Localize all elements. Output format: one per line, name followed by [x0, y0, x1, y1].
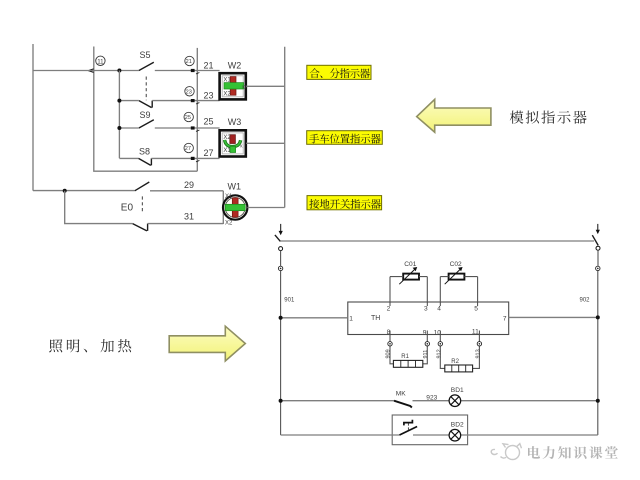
svg-text:21: 21: [204, 60, 214, 70]
wire row 23: [119, 100, 219, 102]
wire 909: [385, 335, 393, 364]
wire W3 to lamp bus: [246, 142, 285, 144]
svg-text:31: 31: [184, 212, 194, 222]
wire left bus: [32, 44, 34, 191]
resistor R1: [393, 354, 422, 367]
terminal 21: [185, 56, 214, 74]
svg-text:7: 7: [503, 315, 507, 322]
pin 9: [423, 329, 428, 336]
lamp W2: [220, 61, 248, 100]
disconnect switch right: [592, 224, 600, 250]
connector pin 11: [88, 56, 105, 72]
svg-text:23: 23: [186, 90, 192, 96]
terminal 27: [184, 143, 214, 162]
svg-text:5: 5: [474, 306, 478, 313]
wire 901 left bus: [281, 251, 295, 435]
svg-text:9: 9: [423, 329, 427, 336]
svg-text:909: 909: [385, 349, 391, 358]
switch MK: [394, 390, 412, 407]
svg-text:C01: C01: [404, 261, 416, 268]
svg-text:923: 923: [426, 394, 437, 401]
svg-text:W3: W3: [228, 117, 242, 127]
arrow lighting heating: [169, 326, 245, 361]
svg-text:R2: R2: [451, 359, 459, 365]
pin 8: [387, 329, 391, 336]
junction node lower left: [279, 399, 283, 403]
wire row 21: [33, 70, 220, 72]
lamp W3: [220, 117, 246, 156]
lamp BD2: [449, 422, 464, 441]
svg-text:S8: S8: [139, 147, 150, 157]
svg-text:27: 27: [204, 148, 214, 158]
enclosure BD2 box: [392, 415, 467, 445]
wire second bus with bottom rail: [94, 47, 198, 172]
wire bottom rail: [281, 434, 598, 436]
pin 4: [437, 302, 441, 313]
svg-text:912: 912: [436, 349, 442, 358]
wire row 29: [33, 180, 223, 191]
switch door contact in BD2: [400, 420, 418, 435]
capacitor C01: [390, 261, 427, 302]
junction node row 23: [117, 99, 121, 103]
svg-text:X1: X1: [223, 148, 231, 154]
wire 911: [423, 335, 430, 364]
text lighting heating: [49, 339, 131, 352]
wire middle rail right: [509, 316, 598, 318]
svg-text:25: 25: [185, 115, 191, 121]
svg-text:W1: W1: [228, 182, 242, 192]
svg-text:X1: X1: [225, 194, 233, 200]
svg-text:911: 911: [423, 350, 429, 359]
svg-text:BD2: BD2: [451, 422, 464, 429]
svg-text:R1: R1: [401, 354, 409, 360]
pin 11: [472, 329, 480, 336]
pin 2: [387, 302, 391, 313]
terminal bus: [196, 48, 198, 171]
switch S8: [139, 147, 152, 166]
svg-text:21: 21: [186, 59, 192, 65]
svg-text:TH: TH: [371, 315, 380, 322]
contact symbol right: [596, 266, 600, 270]
text simulation indicator: [510, 111, 587, 124]
wire lamp bus: [284, 47, 286, 208]
svg-text:902: 902: [580, 297, 591, 303]
svg-text:BD1: BD1: [451, 387, 464, 394]
junction node lower right: [596, 399, 600, 403]
svg-text:E0: E0: [121, 202, 134, 213]
wire lower rail: [281, 400, 598, 402]
svg-text:X2: X2: [225, 220, 233, 226]
svg-text:X: X: [240, 144, 243, 149]
resistor R2: [445, 359, 473, 372]
svg-text:2: 2: [387, 306, 391, 313]
lamp W1: [223, 182, 247, 227]
wire row 25: [119, 127, 219, 129]
contact symbol left: [278, 266, 282, 270]
switch S9: [139, 110, 154, 128]
pin 5: [474, 302, 478, 313]
svg-text:W2: W2: [228, 61, 242, 71]
wire row 27: [119, 157, 219, 159]
junction node row 25: [117, 126, 121, 130]
svg-text:X1: X1: [223, 78, 231, 84]
label close/open indicator: [307, 65, 371, 79]
heater TH: [348, 302, 509, 335]
svg-text:11: 11: [97, 58, 104, 65]
junction node E0: [63, 189, 67, 193]
svg-text:1: 1: [349, 315, 353, 322]
svg-text:23: 23: [204, 90, 214, 100]
disconnect switch left: [275, 224, 283, 251]
junction node middle right: [596, 315, 600, 319]
svg-text:X2: X2: [223, 92, 231, 98]
svg-text:25: 25: [204, 117, 214, 127]
svg-text:901: 901: [284, 297, 295, 303]
pin 3: [424, 302, 428, 313]
watermark text: [528, 446, 618, 459]
switch S5 (two poles): [139, 50, 154, 108]
wire middle rail left: [281, 317, 348, 319]
wire inner bus: [118, 71, 120, 159]
svg-text:4: 4: [437, 306, 441, 313]
wire 912: [436, 335, 445, 369]
wire 913: [473, 335, 482, 369]
junction node middle left: [279, 316, 283, 320]
wire W1 to lamp bus: [247, 207, 284, 209]
capacitor C02: [440, 261, 477, 302]
svg-text:913: 913: [475, 349, 481, 358]
junction node row 21: [117, 69, 121, 73]
svg-text:27: 27: [185, 146, 191, 152]
svg-text:C02: C02: [450, 261, 462, 268]
svg-text:11: 11: [472, 329, 479, 336]
wire 902 right bus: [580, 250, 599, 435]
pin 10: [434, 329, 442, 336]
svg-text:S5: S5: [140, 50, 151, 60]
lamp BD1: [449, 387, 464, 406]
svg-text:29: 29: [184, 180, 194, 190]
watermark logo: [491, 444, 521, 460]
wire W2 to lamp bus: [246, 85, 285, 87]
label grounding switch indicator: [307, 196, 382, 210]
svg-text:S9: S9: [140, 110, 151, 120]
terminal 23: [185, 87, 214, 104]
wire top rail: [281, 240, 594, 242]
svg-text:X2: X2: [223, 135, 231, 141]
terminal 25: [184, 112, 214, 131]
svg-text:3: 3: [424, 306, 428, 313]
label handcart position indicator: [307, 131, 383, 145]
wire row 31: [65, 191, 224, 224]
switch E0 (two poles): [121, 182, 150, 231]
svg-text:MK: MK: [396, 390, 406, 397]
